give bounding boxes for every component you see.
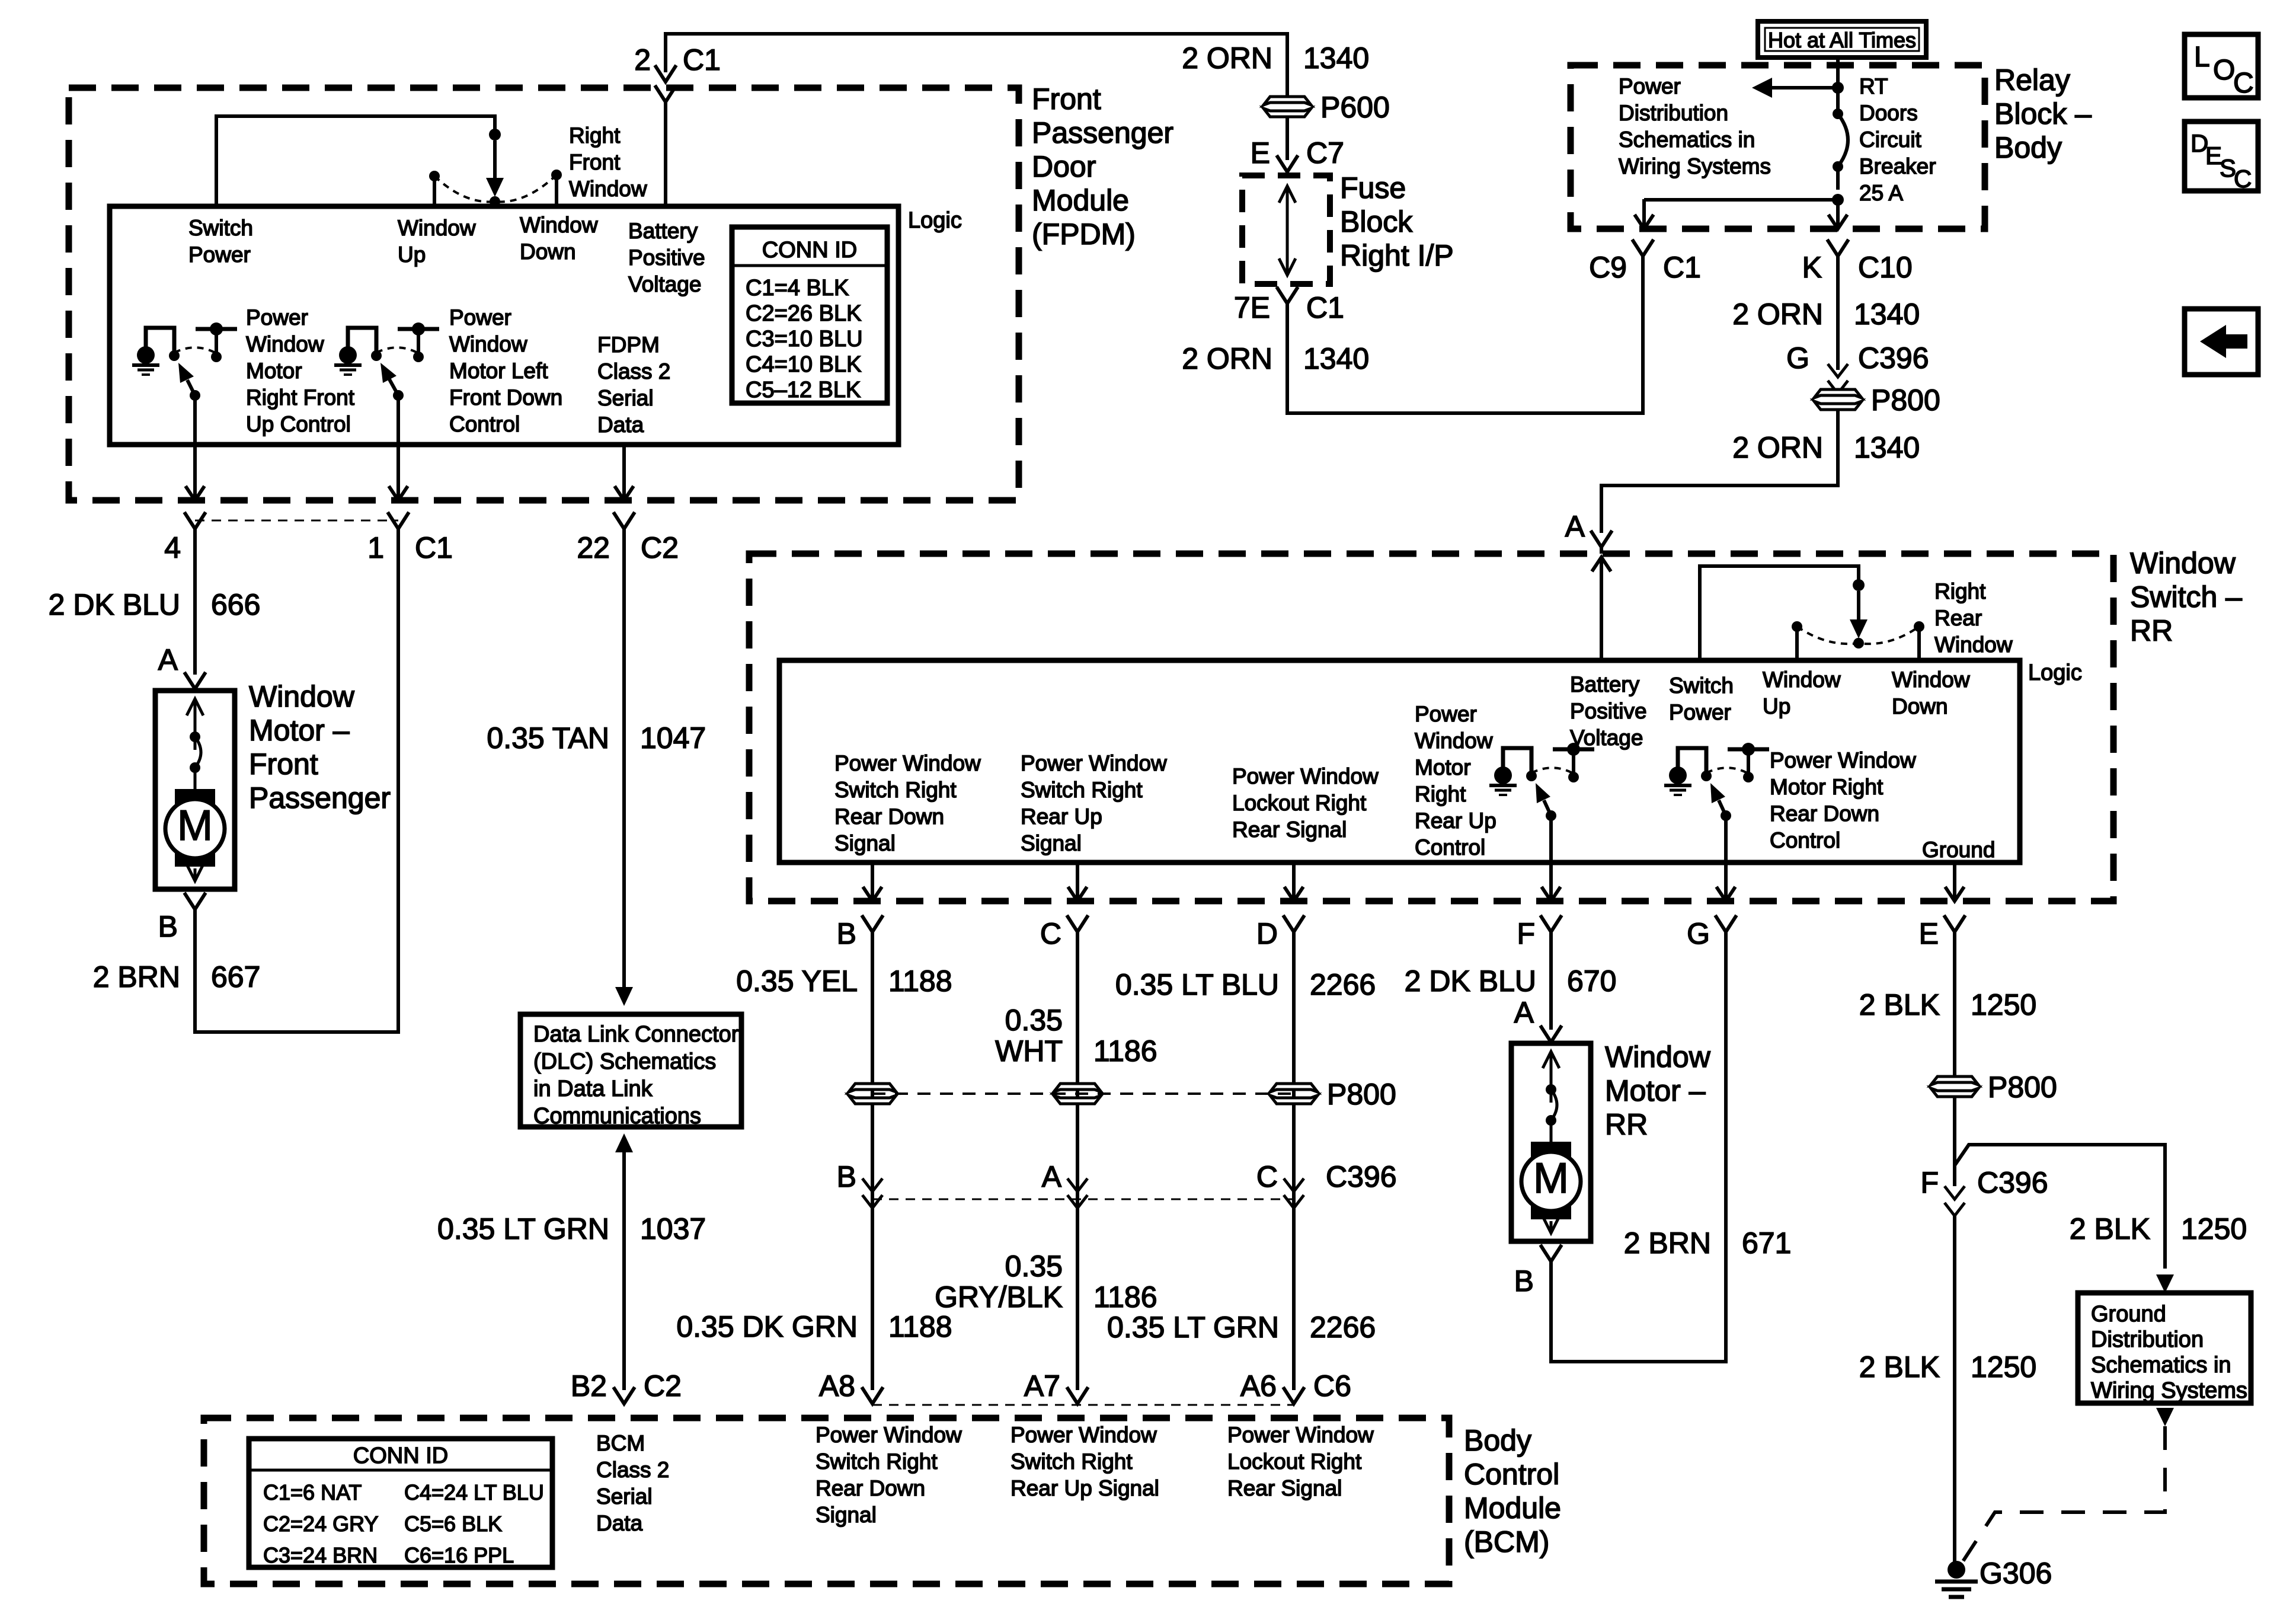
- svg-text:C2=26 BLK: C2=26 BLK: [746, 301, 861, 326]
- connector A / C396 double chevron: [1067, 1178, 1088, 1191]
- dashed ground return from schematics box to G306: [2156, 1408, 2174, 1426]
- svg-text:C6=16 PPL: C6=16 PPL: [404, 1543, 514, 1567]
- svg-text:Motor: Motor: [1415, 755, 1471, 780]
- svg-text:B: B: [837, 917, 856, 950]
- connector C396 dashed link (B-A-C): [872, 1199, 1294, 1200]
- pin label Power Window Lockout Right Rear Signal: [1232, 764, 1379, 842]
- label Body Control Module (BCM): [1464, 1424, 1561, 1558]
- label Logic (FPDM): [908, 208, 962, 233]
- svg-text:B: B: [837, 1160, 856, 1193]
- svg-text:Battery: Battery: [1570, 672, 1640, 697]
- svg-text:Window: Window: [1763, 667, 1841, 692]
- pin label Window Up (FPDM): [398, 216, 476, 267]
- svg-text:0.35 YEL: 0.35 YEL: [736, 964, 858, 998]
- grommet row P800 dashed link: [872, 1092, 1294, 1095]
- svg-text:Ground: Ground: [2091, 1302, 2166, 1327]
- svg-text:Control: Control: [449, 412, 520, 436]
- svg-text:0.35 LT BLU: 0.35 LT BLU: [1115, 968, 1279, 1001]
- svg-text:C4=24 LT BLU: C4=24 LT BLU: [404, 1480, 544, 1504]
- box LOC: [2185, 34, 2258, 99]
- svg-text:Switch –: Switch –: [2130, 580, 2242, 614]
- svg-text:(BCM): (BCM): [1464, 1525, 1549, 1558]
- label Power Window Motor Right Front Up Control: [246, 305, 355, 436]
- svg-text:Rear Up Signal: Rear Up Signal: [1011, 1476, 1159, 1500]
- svg-text:2 BRN: 2 BRN: [1624, 1226, 1711, 1260]
- junction dot to power distribution arrow: [1832, 82, 1844, 94]
- svg-text:Logic: Logic: [908, 208, 962, 233]
- svg-text:22: 22: [577, 531, 610, 564]
- svg-text:Voltage: Voltage: [1570, 726, 1643, 750]
- svg-text:Ground: Ground: [1922, 838, 1995, 862]
- svg-text:2 BLK: 2 BLK: [1859, 988, 1940, 1021]
- label BCM Class 2 Serial Data: [596, 1431, 669, 1535]
- svg-text:Control: Control: [1770, 828, 1840, 852]
- svg-text:Switch: Switch: [1669, 673, 1734, 698]
- svg-text:C: C: [1256, 1160, 1278, 1193]
- wire window switch pin G to dashed edge: [1724, 816, 1728, 862]
- svg-text:Wiring Systems: Wiring Systems: [1619, 154, 1771, 178]
- svg-text:C10: C10: [1858, 251, 1913, 284]
- svg-text:Switch Right: Switch Right: [1021, 778, 1143, 802]
- svg-text:E: E: [1919, 917, 1939, 950]
- connector D chevron (switch RR): [1283, 915, 1304, 932]
- svg-text:1340: 1340: [1854, 298, 1920, 331]
- svg-text:G306: G306: [1980, 1557, 2052, 1590]
- svg-text:Positive: Positive: [628, 245, 705, 270]
- wire 670 pin F to window motor RR A: [1549, 932, 1553, 1030]
- svg-text:M: M: [177, 802, 213, 849]
- svg-text:Rear Up: Rear Up: [1021, 804, 1102, 829]
- label Right Rear Window: [1934, 579, 2013, 657]
- svg-text:1188: 1188: [888, 1310, 952, 1343]
- module FPDM inner logic box: [110, 206, 898, 445]
- svg-text:Distribution: Distribution: [1619, 101, 1728, 125]
- circuit breaker RT Doors 25 A: [1833, 108, 1843, 119]
- label Logic (window switch RR): [2028, 660, 2082, 685]
- svg-text:CONN ID: CONN ID: [762, 238, 857, 263]
- wire P600 to fuse block: [1285, 117, 1289, 160]
- wire 666 FPDM pin4 to window motor A: [193, 529, 197, 675]
- wire breaker to pins K and C9: [1836, 167, 1840, 190]
- svg-text:Power: Power: [188, 242, 251, 267]
- svg-text:Front: Front: [249, 747, 318, 781]
- svg-text:C5–12 BLK: C5–12 BLK: [746, 378, 861, 402]
- svg-text:Right: Right: [1415, 782, 1466, 806]
- box Ground Distribution Schematics in Wiring Systems: [2078, 1293, 2251, 1403]
- svg-text:Communications: Communications: [533, 1104, 701, 1129]
- wire window switch pin C to dashed edge: [1076, 862, 1079, 901]
- svg-text:(DLC) Schematics: (DLC) Schematics: [533, 1049, 716, 1074]
- junction dot switch power FPDM: [489, 129, 501, 140]
- window down contact dot FPDM: [551, 170, 562, 180]
- svg-text:B: B: [158, 910, 178, 943]
- svg-text:Circuit: Circuit: [1859, 127, 1922, 152]
- svg-text:2 BRN: 2 BRN: [93, 960, 180, 994]
- svg-text:Control: Control: [1464, 1458, 1559, 1491]
- svg-text:1340: 1340: [1854, 431, 1920, 464]
- svg-text:Power Window: Power Window: [1232, 764, 1379, 788]
- dashed rocker arc right rear window switch: [1797, 627, 1919, 644]
- svg-text:Rear Signal: Rear Signal: [1232, 817, 1347, 842]
- svg-text:Passenger: Passenger: [249, 781, 391, 814]
- wire 671 motor RR B loop back to pin G: [1551, 932, 1726, 1362]
- svg-text:GRY/BLK: GRY/BLK: [935, 1280, 1063, 1314]
- wire switch power loop FPDM: [216, 116, 495, 206]
- svg-text:670: 670: [1567, 964, 1616, 998]
- svg-text:O: O: [2213, 55, 2235, 86]
- wire 1037 DLC to BCM B2: [622, 1143, 626, 1169]
- box DESC: [2185, 122, 2258, 193]
- svg-text:Module: Module: [1464, 1491, 1561, 1525]
- svg-text:A7: A7: [1024, 1369, 1060, 1403]
- svg-text:C1: C1: [1663, 251, 1701, 284]
- wire window switch pin B to dashed edge: [871, 862, 874, 901]
- pin label Window Down (RR): [1892, 667, 1970, 718]
- svg-text:Window: Window: [2130, 547, 2236, 580]
- connector E chevron (switch RR): [1944, 915, 1965, 932]
- connector C chevron (switch RR): [1067, 915, 1088, 932]
- svg-text:A: A: [1042, 1160, 1062, 1193]
- label Window Switch - RR: [2130, 547, 2242, 647]
- svg-text:Right: Right: [569, 123, 621, 148]
- svg-text:A: A: [1514, 996, 1534, 1029]
- svg-text:in Data Link: in Data Link: [533, 1076, 653, 1101]
- box Data Link Connector (DLC): [520, 1014, 741, 1129]
- pin label Power Window Switch Right Rear Down Signal (BCM): [816, 1423, 962, 1527]
- window up contact dot RR: [1792, 621, 1802, 632]
- svg-text:K: K: [1802, 251, 1822, 284]
- svg-text:4: 4: [164, 531, 181, 564]
- svg-text:1037: 1037: [640, 1212, 706, 1245]
- connector F chevron (switch RR): [1540, 915, 1562, 932]
- svg-text:Window: Window: [1605, 1040, 1711, 1074]
- svg-text:2266: 2266: [1310, 1311, 1376, 1344]
- svg-text:1250: 1250: [1971, 988, 2036, 1021]
- svg-text:0.35 DK GRN: 0.35 DK GRN: [676, 1310, 858, 1343]
- svg-text:Rear Signal: Rear Signal: [1227, 1476, 1342, 1500]
- svg-text:667: 667: [211, 960, 260, 994]
- svg-text:C3=24 BRN: C3=24 BRN: [263, 1543, 378, 1567]
- svg-text:2 ORN: 2 ORN: [1182, 342, 1272, 375]
- svg-text:Power Window: Power Window: [834, 751, 981, 775]
- svg-text:Switch Right: Switch Right: [834, 778, 957, 802]
- svg-text:Power Window: Power Window: [1011, 1423, 1157, 1447]
- svg-text:Schematics in: Schematics in: [2091, 1353, 2231, 1378]
- svg-text:M: M: [1533, 1155, 1569, 1202]
- arrow to power distribution schematics: [1761, 86, 1838, 90]
- svg-text:Serial: Serial: [596, 1484, 653, 1509]
- wire battery positive into switch (A): [1600, 557, 1603, 593]
- dashed rocker arc right front window switch: [434, 175, 557, 202]
- svg-text:Block: Block: [1340, 205, 1413, 238]
- svg-text:Signal: Signal: [1021, 831, 1082, 855]
- svg-text:Down: Down: [520, 239, 576, 264]
- grommet P800 on wire D: [1270, 1084, 1318, 1092]
- svg-text:Power: Power: [449, 305, 511, 330]
- svg-text:Motor: Motor: [246, 359, 302, 383]
- svg-text:2 ORN: 2 ORN: [1732, 298, 1823, 331]
- connector 7E / C1 chevron below fuse block: [1277, 287, 1298, 304]
- connector C9 / C1 chevron: [1632, 239, 1654, 256]
- svg-text:Motor Right: Motor Right: [1770, 775, 1884, 799]
- wire FPDM pin 22 serial data to dashed edge: [622, 445, 626, 459]
- svg-text:Motor Left: Motor Left: [449, 359, 548, 383]
- svg-text:A: A: [1565, 510, 1585, 543]
- connector K / C10 chevron: [1827, 239, 1849, 256]
- ground G306: [1935, 1561, 1978, 1597]
- connector C2 pin 22 chevron: [613, 512, 635, 529]
- svg-text:B: B: [1514, 1264, 1534, 1298]
- svg-text:B2: B2: [571, 1369, 607, 1403]
- label Relay Block - Body: [1994, 63, 2092, 164]
- grommet P800 on wire C: [1054, 1084, 1101, 1092]
- svg-text:C6: C6: [1313, 1369, 1351, 1403]
- wiper arrow right rear window switch: [1857, 591, 1860, 629]
- label RT Doors Circuit Breaker 25 A: [1859, 74, 1936, 205]
- grommet P800 on ground wire: [1931, 1076, 1978, 1085]
- svg-text:C1: C1: [415, 531, 453, 564]
- svg-text:Door: Door: [1032, 150, 1096, 183]
- svg-text:Body: Body: [1994, 131, 2062, 164]
- connector 2 / C1 double chevron at FPDM top: [655, 65, 676, 82]
- svg-text:G: G: [1786, 341, 1809, 375]
- wire 667 motor B loop back to pin 1: [195, 529, 398, 1032]
- svg-text:RT: RT: [1859, 74, 1888, 98]
- svg-text:(FPDM): (FPDM): [1032, 218, 1136, 251]
- pin label Power Window Lockout Right Rear Signal (BCM): [1227, 1423, 1374, 1500]
- svg-text:2 ORN: 2 ORN: [1732, 431, 1823, 464]
- svg-text:C2: C2: [641, 531, 679, 564]
- connector B window motor RR: [1540, 1245, 1562, 1261]
- svg-text:1186: 1186: [1093, 1280, 1157, 1314]
- wire switch power loop RR: [1700, 566, 1859, 660]
- svg-text:0.35: 0.35: [1005, 1004, 1063, 1037]
- svg-text:Up: Up: [398, 242, 426, 267]
- wiper arrow right front window switch: [493, 140, 497, 187]
- branch wire to ground distribution: [1955, 1145, 2165, 1269]
- svg-text:Switch Right: Switch Right: [1011, 1449, 1133, 1474]
- svg-text:Signal: Signal: [816, 1503, 877, 1527]
- svg-text:Front: Front: [1032, 82, 1101, 116]
- svg-text:Data: Data: [596, 1511, 643, 1535]
- window up contact dot FPDM: [429, 171, 440, 181]
- connector G chevron (switch RR): [1715, 915, 1737, 932]
- svg-text:Window: Window: [1934, 632, 2013, 657]
- svg-text:Passenger: Passenger: [1032, 116, 1173, 149]
- svg-text:Module: Module: [1032, 184, 1129, 217]
- label Right Front Window: [569, 123, 647, 201]
- switch power window motor left front down control: [334, 322, 439, 401]
- wire FPDM pin 4 to dashed edge: [193, 395, 197, 459]
- svg-text:Switch Right: Switch Right: [816, 1449, 938, 1474]
- svg-text:2 DK BLU: 2 DK BLU: [49, 588, 180, 621]
- label Battery Positive Voltage (switch RR): [1570, 672, 1647, 750]
- svg-text:L: L: [2194, 41, 2210, 73]
- svg-text:Motor –: Motor –: [1605, 1074, 1706, 1107]
- svg-text:Right Front: Right Front: [246, 385, 355, 410]
- wire 1250 C396 to ground G306: [1953, 1216, 1956, 1565]
- label Window Motor - RR: [1605, 1040, 1711, 1141]
- wire window switch pin E ground to dashed edge: [1953, 862, 1956, 901]
- pin label Power Window Switch Right Rear Up Signal: [1021, 751, 1167, 855]
- label Power Distribution Schematics in Wiring Systems (relay block): [1619, 74, 1771, 178]
- svg-text:Window: Window: [569, 177, 647, 201]
- label Power Window Motor Left Front Down Control: [449, 305, 562, 436]
- svg-text:2266: 2266: [1310, 968, 1376, 1001]
- svg-text:0.35: 0.35: [1005, 1250, 1063, 1283]
- svg-text:F: F: [1920, 1166, 1939, 1199]
- svg-text:Down: Down: [1892, 694, 1948, 718]
- connector B / C396 double chevron: [862, 1178, 882, 1191]
- svg-text:Right: Right: [1934, 579, 1986, 603]
- label Front Passenger Door Module (FPDM): [1032, 82, 1173, 251]
- svg-text:Distribution: Distribution: [2091, 1327, 2204, 1352]
- svg-text:C396: C396: [1858, 341, 1929, 375]
- svg-text:P800: P800: [1327, 1078, 1396, 1111]
- svg-text:Front: Front: [569, 150, 621, 174]
- svg-text:P800: P800: [1988, 1071, 2057, 1104]
- svg-text:Power: Power: [1619, 74, 1681, 98]
- window motor - RR: [1511, 1043, 1591, 1241]
- svg-text:Power: Power: [1669, 700, 1731, 724]
- svg-text:Hot at All Times: Hot at All Times: [1768, 28, 1916, 52]
- svg-text:Positive: Positive: [1570, 699, 1647, 723]
- wire C396 to P800: [1836, 389, 1840, 394]
- svg-text:2 DK BLU: 2 DK BLU: [1405, 964, 1536, 998]
- svg-text:Power Window: Power Window: [816, 1423, 962, 1447]
- connector C1 pin 1 chevron: [388, 512, 409, 529]
- svg-text:Window: Window: [449, 332, 527, 356]
- svg-text:C9: C9: [1589, 251, 1627, 284]
- svg-text:1186: 1186: [1093, 1034, 1157, 1068]
- svg-text:Motor –: Motor –: [249, 714, 350, 747]
- svg-text:E: E: [1251, 136, 1270, 170]
- svg-text:Doors: Doors: [1859, 101, 1918, 125]
- svg-text:Window: Window: [520, 213, 598, 237]
- svg-text:Up Control: Up Control: [246, 412, 351, 436]
- svg-text:1340: 1340: [1303, 342, 1369, 375]
- label Window Motor - Front Passenger: [249, 680, 391, 814]
- box Hot at All Times: [1758, 21, 1926, 57]
- svg-text:P600: P600: [1320, 91, 1390, 124]
- svg-text:C1: C1: [683, 43, 721, 76]
- svg-text:Voltage: Voltage: [628, 272, 701, 296]
- svg-text:Fuse: Fuse: [1340, 171, 1406, 205]
- svg-text:2 ORN: 2 ORN: [1182, 41, 1272, 75]
- svg-text:1340: 1340: [1303, 41, 1369, 75]
- grommet P600: [1264, 97, 1311, 105]
- svg-text:Up: Up: [1763, 694, 1790, 718]
- svg-text:Rear Down: Rear Down: [834, 804, 944, 829]
- svg-text:Window: Window: [398, 216, 476, 240]
- wire battery feed top (pin 2 C1 to P600): [666, 34, 1287, 97]
- grommet P800 on wire B: [849, 1084, 896, 1092]
- switch power window motor right rear up control: [1489, 743, 1594, 821]
- svg-text:C1=6 NAT: C1=6 NAT: [263, 1480, 362, 1504]
- wire hot feed into relay block: [1836, 57, 1840, 114]
- svg-text:1250: 1250: [2181, 1212, 2247, 1245]
- fuse block dashed outline: [1242, 175, 1330, 284]
- svg-text:C396: C396: [1977, 1166, 2048, 1199]
- svg-text:Breaker: Breaker: [1859, 154, 1936, 178]
- svg-text:Control: Control: [1415, 835, 1485, 860]
- pin label Power Window Switch Right Rear Down Signal: [834, 751, 981, 855]
- svg-text:Right I/P: Right I/P: [1340, 239, 1454, 272]
- switch power window motor right front up control: [132, 322, 237, 401]
- table CONN ID (FPDM): [732, 227, 887, 403]
- wire 2266 pin D to BCM A6: [1292, 932, 1296, 1390]
- svg-text:Class 2: Class 2: [597, 359, 670, 384]
- wiper dot right front window switch: [490, 196, 500, 207]
- svg-text:666: 666: [211, 588, 260, 621]
- window motor - front passenger: [155, 691, 235, 889]
- table CONN ID (BCM): [249, 1439, 552, 1567]
- svg-text:C1: C1: [1306, 291, 1344, 324]
- svg-text:Lockout Right: Lockout Right: [1227, 1449, 1362, 1474]
- svg-text:Block –: Block –: [1994, 97, 2092, 130]
- wire window switch pin F to dashed edge: [1549, 816, 1553, 862]
- svg-text:Rear: Rear: [1934, 606, 1982, 630]
- wire through fuse block: [1286, 187, 1289, 274]
- svg-text:Window: Window: [1415, 729, 1493, 753]
- junction dot switch power RR: [1853, 579, 1865, 591]
- svg-text:1250: 1250: [1971, 1350, 2036, 1384]
- svg-text:C4=10 BLK: C4=10 BLK: [746, 352, 861, 377]
- wiper dot right rear window switch: [1853, 638, 1864, 649]
- pin label Window Up (RR): [1763, 667, 1841, 718]
- svg-text:Rear Down: Rear Down: [816, 1476, 925, 1500]
- svg-text:Wiring Systems: Wiring Systems: [2091, 1378, 2247, 1403]
- svg-text:Power Window: Power Window: [1227, 1423, 1374, 1447]
- relay block body dashed outline: [1571, 65, 1985, 229]
- module FPDM dashed outline: [69, 88, 1019, 500]
- wire 1340 K/C10 down to C396: [1836, 256, 1840, 370]
- wire P800 to C396 pin F: [1953, 1097, 1956, 1186]
- connector E / C7 chevron: [1277, 155, 1298, 172]
- svg-text:RR: RR: [2130, 614, 2173, 647]
- svg-text:C1=4 BLK: C1=4 BLK: [746, 276, 849, 301]
- svg-text:Battery: Battery: [628, 219, 698, 243]
- svg-text:Class 2: Class 2: [596, 1458, 669, 1482]
- svg-text:0.35 TAN: 0.35 TAN: [487, 721, 609, 755]
- svg-text:Body: Body: [1464, 1424, 1531, 1457]
- grommet P800 (battery feed): [1814, 389, 1862, 398]
- svg-text:C: C: [2233, 68, 2254, 99]
- connector A6 / C6 chevron at BCM: [1283, 1387, 1304, 1404]
- label Fuse Block Right I/P: [1340, 171, 1454, 272]
- connector C1 pin 4 chevron: [184, 512, 206, 529]
- svg-text:G: G: [1687, 917, 1710, 950]
- svg-text:Logic: Logic: [2028, 660, 2082, 685]
- label FDPM Class 2 Serial Data: [597, 333, 670, 437]
- svg-text:7E: 7E: [1234, 291, 1270, 324]
- wire 1186 pin C to BCM A7: [1076, 932, 1079, 1390]
- svg-text:Switch: Switch: [188, 216, 253, 240]
- wire 1188 pin B to BCM A8: [871, 932, 874, 1390]
- wire 1047 serial data to DLC: [622, 529, 626, 972]
- wire FPDM pin 1 to dashed edge: [396, 395, 400, 459]
- svg-text:FDPM: FDPM: [597, 333, 660, 357]
- svg-text:WHT: WHT: [995, 1034, 1063, 1068]
- connector dashed link A8-A7-A6: [872, 1404, 1294, 1406]
- module window switch RR inner logic box: [779, 660, 2020, 862]
- svg-text:2 BLK: 2 BLK: [1859, 1350, 1940, 1384]
- connector dashed link pins 4-1: [195, 520, 398, 522]
- svg-text:Window: Window: [249, 680, 355, 713]
- label Power Window Motor Right Rear Down Control: [1770, 748, 1916, 852]
- pin label Window Down (FPDM): [520, 213, 598, 264]
- module BCM dashed outline: [204, 1418, 1449, 1584]
